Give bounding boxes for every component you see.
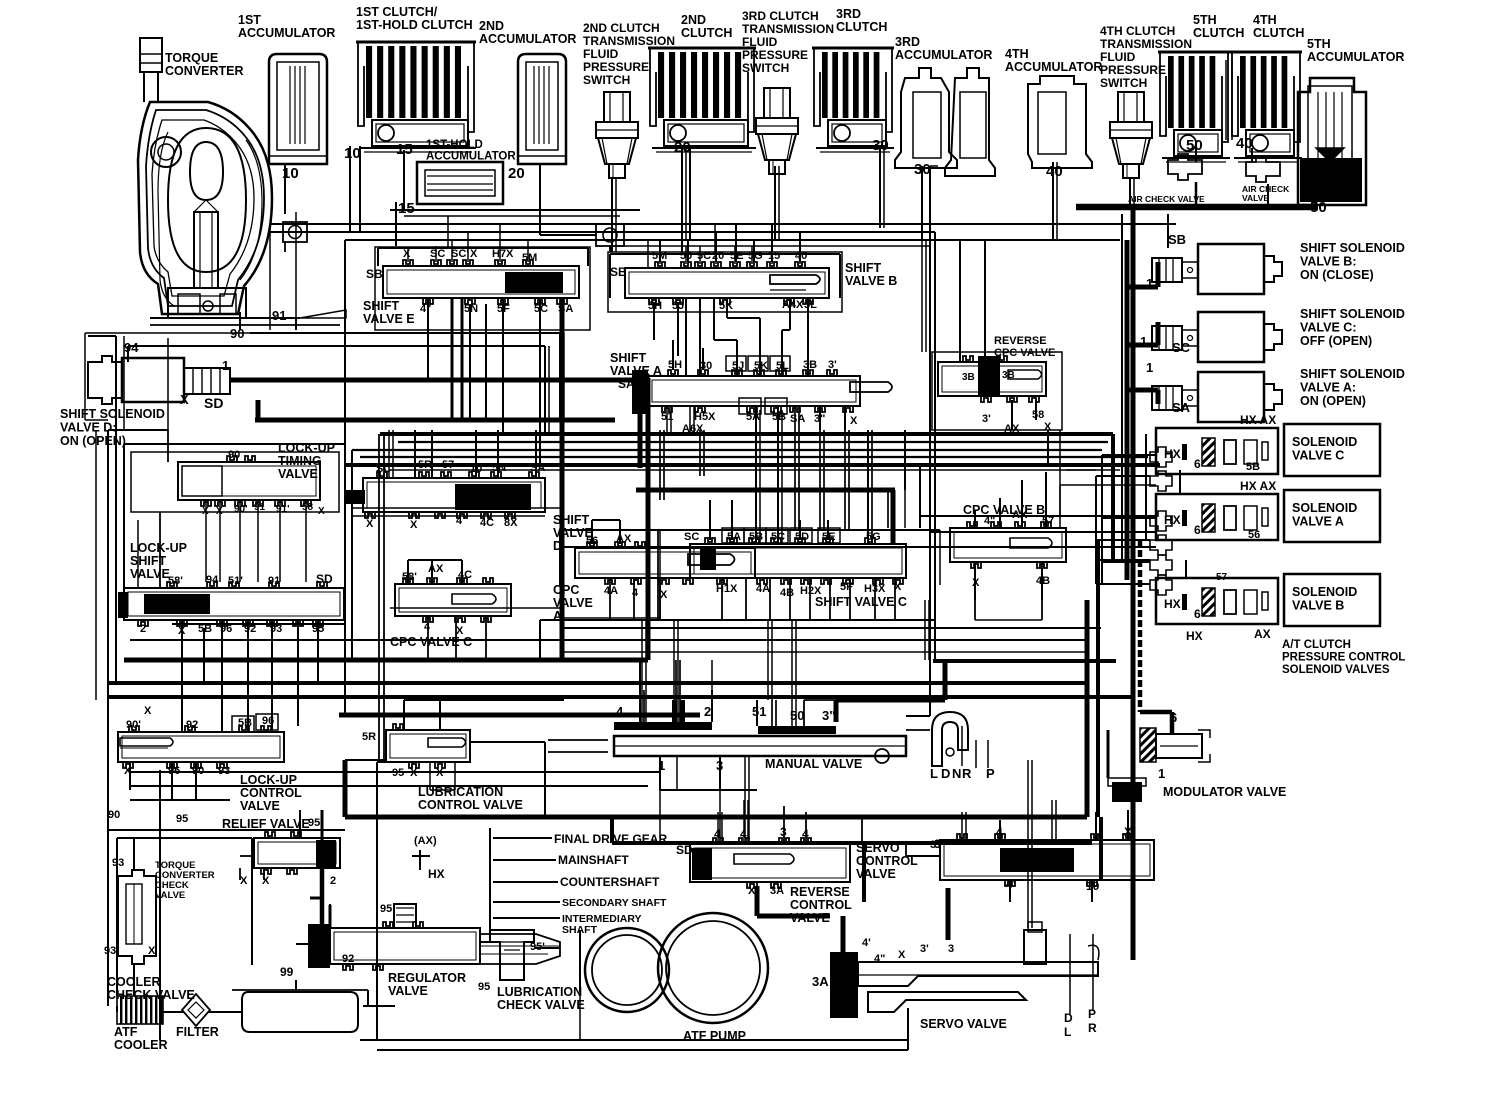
svg-text:92: 92 (186, 719, 198, 731)
svg-text:H7X: H7X (492, 248, 514, 260)
svg-text:5R: 5R (362, 731, 376, 743)
svg-text:X: X (403, 248, 411, 260)
svg-text:X: X (144, 705, 152, 717)
svg-text:SA: SA (790, 413, 805, 425)
svg-text:SHIFT: SHIFT (845, 261, 881, 275)
svg-text:FILTER: FILTER (176, 1025, 219, 1039)
svg-text:58: 58 (1032, 409, 1044, 421)
svg-text:91: 91 (272, 308, 286, 323)
svg-text:SHIFT VALVE C: SHIFT VALVE C (815, 595, 907, 609)
svg-text:4TH: 4TH (1005, 47, 1029, 61)
svg-text:VALVE C:: VALVE C: (1300, 321, 1356, 335)
svg-text:X: X (660, 589, 668, 601)
svg-text:58': 58' (402, 571, 417, 583)
svg-text:3A: 3A (770, 885, 784, 897)
svg-text:AIR CHECK VALVE: AIR CHECK VALVE (1128, 194, 1205, 204)
svg-text:SERVO VALVE: SERVO VALVE (920, 1017, 1007, 1031)
svg-text:MODULATOR VALVE: MODULATOR VALVE (1163, 785, 1286, 799)
svg-text:3: 3 (948, 943, 954, 955)
svg-text:4': 4' (862, 937, 871, 949)
svg-text:15: 15 (398, 200, 415, 217)
svg-text:6: 6 (1194, 607, 1201, 621)
svg-text:TORQUE: TORQUE (165, 51, 218, 65)
svg-text:4TH: 4TH (1253, 13, 1277, 27)
svg-text:CPC VALVE: CPC VALVE (994, 347, 1055, 359)
svg-text:ON (CLOSE): ON (CLOSE) (1300, 268, 1374, 282)
svg-text:REGULATOR: REGULATOR (388, 971, 466, 985)
svg-text:SA: SA (1172, 400, 1191, 415)
svg-text:95: 95 (380, 903, 392, 915)
svg-text:(AX): (AX) (414, 835, 437, 847)
svg-text:PRESSURE: PRESSURE (742, 48, 808, 62)
svg-text:90: 90 (108, 809, 120, 821)
svg-text:95: 95 (308, 817, 320, 829)
svg-text:SHIFT SOLENOID: SHIFT SOLENOID (1300, 307, 1405, 321)
svg-text:VALVE: VALVE (1242, 193, 1269, 203)
svg-text:5J: 5J (732, 360, 744, 372)
svg-text:CPC: CPC (553, 583, 579, 597)
svg-text:SC: SC (430, 248, 445, 260)
svg-text:VALVE A:: VALVE A: (1300, 381, 1356, 395)
svg-text:SC: SC (684, 531, 699, 543)
svg-text:99: 99 (280, 965, 294, 979)
svg-text:3': 3' (920, 943, 929, 955)
svg-text:FLUID: FLUID (1100, 50, 1136, 64)
svg-text:10: 10 (344, 145, 361, 162)
svg-text:X: X (850, 415, 858, 427)
svg-text:ATF: ATF (114, 1025, 138, 1039)
svg-text:X: X (148, 945, 156, 957)
svg-text:SHIFT SOLENOID: SHIFT SOLENOID (1300, 367, 1405, 381)
svg-text:R: R (962, 766, 972, 781)
svg-text:3B: 3B (803, 359, 817, 371)
svg-text:5K: 5K (754, 360, 768, 372)
svg-text:LUBRICATION: LUBRICATION (497, 985, 582, 999)
svg-text:CLUTCH: CLUTCH (681, 26, 732, 40)
svg-text:5B: 5B (772, 411, 786, 423)
svg-text:ACCUMULATOR: ACCUMULATOR (238, 26, 335, 40)
svg-text:FLUID: FLUID (742, 35, 778, 49)
svg-text:4B: 4B (1036, 575, 1050, 587)
svg-text:1: 1 (1158, 766, 1165, 781)
svg-text:94: 94 (124, 340, 139, 355)
svg-text:SD: SD (676, 843, 693, 857)
svg-text:2ND: 2ND (479, 19, 504, 33)
svg-text:H5X: H5X (694, 411, 716, 423)
svg-text:HX AX: HX AX (1240, 413, 1276, 427)
svg-text:A/T CLUTCH: A/T CLUTCH (1282, 639, 1351, 651)
svg-text:SOLENOID: SOLENOID (1292, 585, 1357, 599)
svg-text:1ST-HOLD: 1ST-HOLD (426, 139, 483, 151)
svg-text:TRANSMISSION: TRANSMISSION (583, 34, 675, 48)
svg-text:ACCUMULATOR: ACCUMULATOR (1307, 50, 1404, 64)
svg-text:REVERSE: REVERSE (790, 885, 850, 899)
svg-text:CONTROL: CONTROL (790, 898, 852, 912)
svg-text:3B: 3B (962, 372, 975, 383)
svg-text:VALVE A: VALVE A (1292, 515, 1344, 529)
svg-text:VALVE B:: VALVE B: (1300, 255, 1356, 269)
svg-text:OFF (OPEN): OFF (OPEN) (1300, 334, 1372, 348)
svg-text:5A: 5A (727, 531, 741, 543)
svg-text:3': 3' (828, 359, 837, 371)
svg-text:AX: AX (1254, 627, 1271, 641)
svg-text:5H: 5H (668, 359, 682, 371)
svg-text:L: L (930, 766, 938, 781)
svg-text:AX: AX (616, 533, 632, 545)
svg-text:TIMING: TIMING (278, 454, 322, 468)
svg-text:4TH CLUTCH: 4TH CLUTCH (1100, 24, 1175, 38)
svg-text:51: 51 (752, 704, 766, 719)
svg-text:P: P (1088, 1007, 1096, 1021)
svg-text:VALVE: VALVE (856, 867, 896, 881)
svg-text:91': 91' (276, 504, 290, 515)
svg-text:93: 93 (112, 857, 124, 869)
svg-text:X: X (240, 875, 248, 887)
svg-text:90': 90' (234, 504, 248, 515)
svg-text:PRESSURE: PRESSURE (583, 60, 649, 74)
svg-text:1ST-HOLD CLUTCH: 1ST-HOLD CLUTCH (356, 18, 473, 32)
svg-text:CLUTCH: CLUTCH (1253, 26, 1304, 40)
svg-text:COUNTERSHAFT: COUNTERSHAFT (560, 875, 660, 889)
svg-text:5L: 5L (804, 299, 817, 311)
svg-text:5F: 5F (840, 581, 853, 593)
svg-text:HX AX: HX AX (1240, 479, 1276, 493)
svg-text:TRANSMISSION: TRANSMISSION (742, 22, 834, 36)
svg-text:5TH: 5TH (1193, 13, 1217, 27)
svg-text:LUBRICATION: LUBRICATION (418, 785, 503, 799)
svg-text:X: X (180, 392, 189, 407)
svg-text:4A: 4A (604, 585, 618, 597)
svg-text:SHIFT SOLENOID: SHIFT SOLENOID (1300, 241, 1405, 255)
svg-text:SD: SD (204, 395, 223, 411)
svg-text:SC': SC' (451, 248, 469, 260)
svg-text:8X: 8X (504, 517, 518, 529)
svg-text:40: 40 (1236, 135, 1253, 152)
svg-text:40: 40 (1046, 163, 1063, 180)
svg-text:CONVERTER: CONVERTER (165, 64, 243, 78)
svg-text:SHIFT: SHIFT (553, 513, 589, 527)
svg-text:L: L (1064, 1025, 1071, 1039)
svg-text:5TH: 5TH (1307, 37, 1331, 51)
svg-text:FLUID: FLUID (583, 47, 619, 61)
svg-text:5H: 5H (648, 300, 662, 312)
svg-text:5B: 5B (238, 717, 252, 729)
svg-text:REVERSE: REVERSE (994, 335, 1047, 347)
svg-text:4": 4" (874, 953, 885, 965)
svg-text:VALVE B: VALVE B (1292, 599, 1344, 613)
svg-text:R: R (1088, 1021, 1097, 1035)
svg-text:X: X (410, 519, 418, 531)
svg-text:PRESSURE: PRESSURE (1100, 63, 1166, 77)
svg-text:ON (OPEN): ON (OPEN) (1300, 394, 1366, 408)
svg-text:5D: 5D (795, 531, 809, 543)
svg-text:50: 50 (1186, 137, 1203, 154)
svg-text:SHIFT: SHIFT (363, 299, 399, 313)
svg-text:VALVE B: VALVE B (845, 274, 897, 288)
svg-text:1ST CLUTCH/: 1ST CLUTCH/ (356, 5, 438, 19)
svg-text:X: X (366, 518, 374, 530)
svg-text:VALVE E: VALVE E (363, 312, 415, 326)
svg-text:CLUTCH: CLUTCH (1193, 26, 1244, 40)
svg-text:SD: SD (316, 572, 333, 586)
svg-text:ACCUMULATOR: ACCUMULATOR (1005, 60, 1102, 74)
svg-text:D: D (1064, 1011, 1073, 1025)
svg-text:HX: HX (1186, 629, 1203, 643)
svg-text:51': 51' (228, 575, 243, 587)
svg-text:A4X: A4X (782, 299, 804, 311)
svg-text:CPC VALVE C: CPC VALVE C (390, 635, 472, 649)
svg-text:MANUAL VALVE: MANUAL VALVE (765, 757, 862, 771)
svg-text:4: 4 (456, 515, 463, 527)
svg-text:SWITCH: SWITCH (1100, 76, 1147, 90)
svg-text:3A: 3A (812, 974, 829, 989)
svg-text:4C: 4C (458, 569, 472, 581)
svg-text:COOLER: COOLER (114, 1038, 167, 1052)
svg-text:SB: SB (1168, 232, 1186, 247)
svg-text:4A: 4A (756, 583, 770, 595)
svg-text:91: 91 (268, 575, 280, 587)
svg-text:1ST: 1ST (238, 13, 261, 27)
svg-text:X: X (470, 248, 478, 260)
svg-text:H1X: H1X (716, 583, 738, 595)
svg-text:2: 2 (704, 704, 711, 719)
svg-text:SWITCH: SWITCH (583, 73, 630, 87)
svg-text:ACCUMULATOR: ACCUMULATOR (479, 32, 576, 46)
svg-text:5C: 5C (534, 303, 548, 315)
svg-text:CONTROL: CONTROL (240, 786, 302, 800)
svg-text:92: 92 (342, 953, 354, 965)
svg-text:ACCUMULATOR: ACCUMULATOR (426, 151, 516, 163)
svg-text:SECONDARY SHAFT: SECONDARY SHAFT (562, 897, 667, 909)
svg-text:X: X (898, 949, 906, 961)
svg-text:2ND: 2ND (681, 13, 706, 27)
svg-text:AX: AX (428, 563, 444, 575)
svg-text:HX: HX (428, 867, 445, 881)
svg-text:H2X: H2X (800, 585, 822, 597)
svg-text:SB: SB (610, 265, 627, 279)
svg-text:3": 3" (822, 708, 835, 723)
svg-text:3': 3' (982, 413, 991, 425)
svg-text:90': 90' (126, 719, 141, 731)
svg-text:SOLENOID: SOLENOID (1292, 435, 1357, 449)
svg-text:20: 20 (508, 165, 525, 182)
svg-text:ACCUMULATOR: ACCUMULATOR (895, 48, 992, 62)
svg-text:5N: 5N (464, 303, 478, 315)
svg-text:LOCK-UP: LOCK-UP (240, 773, 297, 787)
svg-text:SHIFT: SHIFT (610, 351, 646, 365)
svg-text:SWITCH: SWITCH (742, 61, 789, 75)
svg-text:TRANSMISSION: TRANSMISSION (1100, 37, 1192, 51)
svg-text:VALVE A: VALVE A (610, 364, 662, 378)
svg-text:SHIFT SOLENOID: SHIFT SOLENOID (60, 407, 165, 421)
svg-text:30: 30 (700, 360, 712, 372)
svg-text:90: 90 (228, 449, 240, 461)
svg-text:57: 57 (1216, 572, 1228, 583)
svg-text:CHECK VALVE: CHECK VALVE (497, 998, 585, 1012)
svg-text:94: 94 (206, 574, 219, 586)
svg-text:MAINSHAFT: MAINSHAFT (558, 853, 629, 867)
svg-text:X: X (456, 625, 464, 637)
svg-text:SOLENOID VALVES: SOLENOID VALVES (1282, 664, 1390, 676)
svg-text:1: 1 (324, 953, 330, 965)
svg-text:N: N (952, 766, 961, 781)
svg-text:VALVE: VALVE (240, 799, 280, 813)
svg-text:PRESSURE CONTROL: PRESSURE CONTROL (1282, 652, 1405, 664)
svg-text:SC: SC (1172, 340, 1191, 355)
svg-text:VALVE: VALVE (130, 567, 170, 581)
svg-text:56: 56 (1248, 529, 1260, 541)
svg-text:5B: 5B (1246, 461, 1260, 473)
svg-text:3B: 3B (1002, 370, 1015, 381)
svg-text:RELIEF VALVE: RELIEF VALVE (222, 817, 310, 831)
svg-text:2: 2 (140, 623, 146, 635)
svg-text:1: 1 (1146, 360, 1153, 375)
svg-text:6: 6 (1194, 523, 1201, 537)
svg-text:SOLENOID: SOLENOID (1292, 501, 1357, 515)
svg-text:VALVE: VALVE (278, 467, 318, 481)
svg-text:5A: 5A (746, 411, 760, 423)
svg-text:VALVE: VALVE (388, 984, 428, 998)
svg-text:2: 2 (330, 875, 336, 887)
svg-text:VALVE C: VALVE C (1292, 449, 1344, 463)
svg-text:SHIFT: SHIFT (130, 554, 166, 568)
svg-text:4": 4" (420, 303, 431, 315)
svg-text:CLUTCH: CLUTCH (836, 20, 887, 34)
svg-text:CONTROL VALVE: CONTROL VALVE (418, 798, 523, 812)
svg-text:4: 4 (632, 587, 639, 599)
svg-text:5M: 5M (522, 252, 537, 264)
svg-text:58': 58' (168, 575, 183, 587)
svg-text:D: D (941, 766, 950, 781)
svg-text:3RD CLUTCH: 3RD CLUTCH (742, 9, 819, 23)
svg-text:6: 6 (1194, 457, 1201, 471)
svg-text:4C: 4C (480, 517, 494, 529)
svg-text:4B: 4B (780, 587, 794, 599)
svg-text:3RD: 3RD (836, 7, 861, 21)
svg-text:95: 95 (176, 813, 188, 825)
svg-text:P: P (986, 766, 995, 781)
svg-text:2ND CLUTCH: 2ND CLUTCH (583, 21, 660, 35)
svg-text:CHECK VALVE: CHECK VALVE (107, 988, 195, 1002)
svg-text:95: 95 (478, 981, 490, 993)
svg-text:1: 1 (222, 358, 229, 373)
svg-text:HX: HX (1164, 597, 1181, 611)
svg-text:3RD: 3RD (895, 35, 920, 49)
